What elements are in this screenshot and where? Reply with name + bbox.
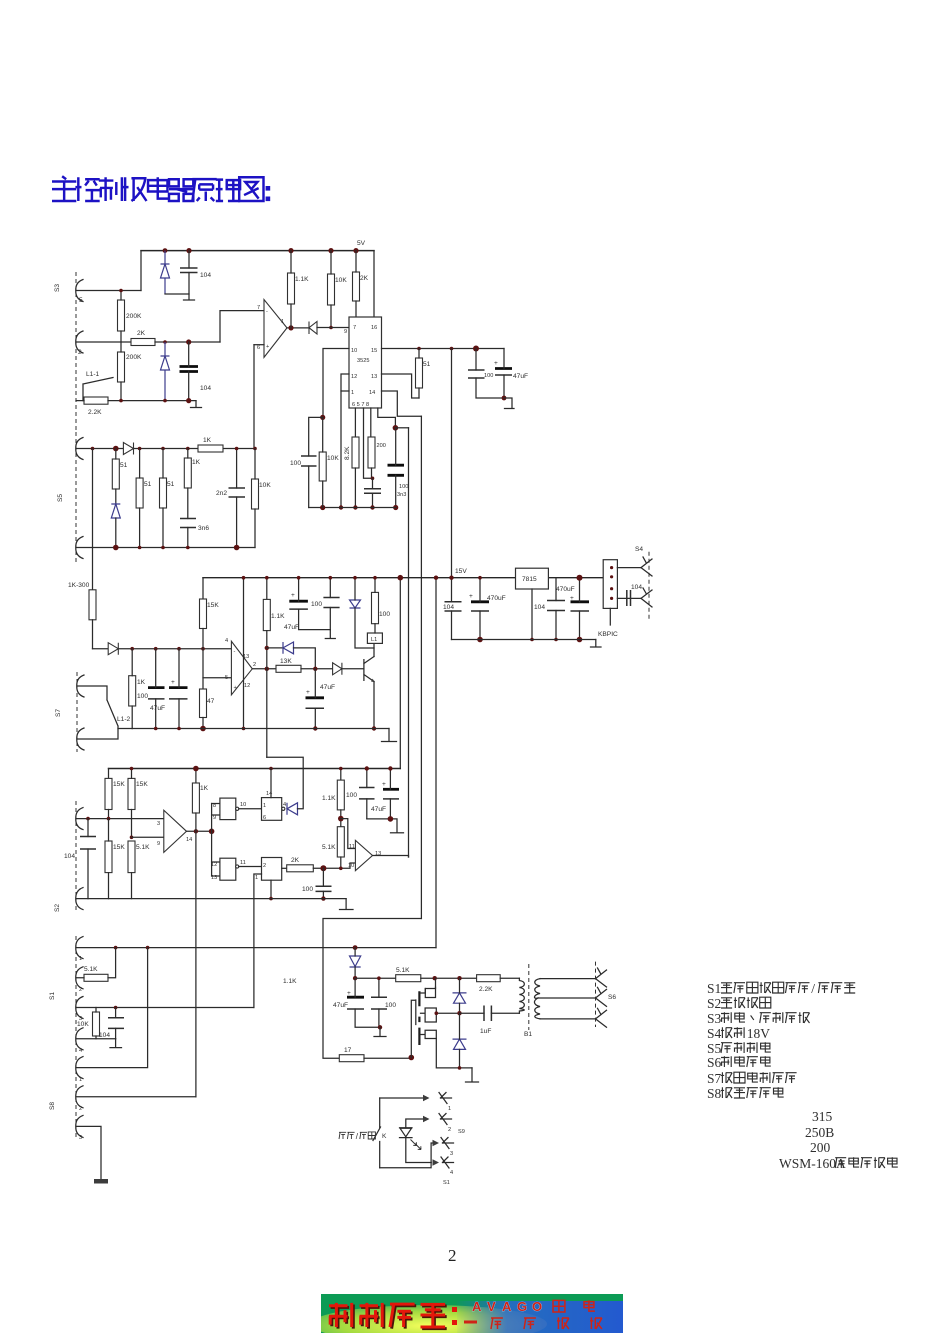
wire diode to base [342, 668, 364, 670]
resistor 51 a [112, 459, 119, 489]
op-amp U1 [264, 300, 287, 358]
thyristor leads [354, 948, 356, 979]
diode flyback [350, 600, 361, 608]
svg-text:L1-1: L1-1 [86, 371, 100, 378]
wire IC pin13 [382, 374, 420, 398]
IC U2 SG3525 box [349, 317, 382, 408]
resistor 10K s1 leads [95, 1008, 97, 1039]
capacitor 104 lower leads [188, 342, 190, 401]
capacitor 3n6 [180, 519, 196, 528]
svg-text:-: - [234, 649, 236, 655]
resistor 2K pullup leads [355, 251, 357, 317]
node 1K l rail [193, 766, 199, 772]
svg-text:2n2: 2n2 [216, 490, 227, 497]
resistor 47 [200, 689, 207, 718]
svg-text:5: 5 [225, 675, 228, 681]
S8 pin1 wire riser [76, 948, 148, 1068]
svg-text:13K: 13K [280, 658, 292, 665]
svg-text:100: 100 [302, 886, 313, 893]
transistor Q1 [364, 657, 374, 682]
resistor 1K series [198, 445, 223, 452]
wire 13K to diode [301, 668, 333, 670]
capacitor 47uF mid b leads [178, 649, 180, 729]
node 470uF a gnd [477, 637, 483, 643]
svg-text:9: 9 [344, 329, 347, 335]
svg-text:12: 12 [244, 683, 250, 689]
svg-text:3: 3 [79, 1135, 82, 1141]
regulator 7815 box [516, 568, 549, 589]
svg-text:104: 104 [534, 604, 545, 611]
flipflop FF1 box [262, 798, 282, 821]
wire pin6 to S5 line [253, 345, 255, 449]
ground snubber [466, 1068, 479, 1082]
capacitor 470uF b [571, 600, 590, 603]
banner background [321, 1294, 623, 1333]
svg-text:1K: 1K [200, 785, 209, 792]
ground below 104 [184, 294, 195, 300]
capacitor 3n6 lead [187, 528, 189, 548]
svg-text:10K: 10K [327, 455, 339, 462]
svg-text:S3: S3 [54, 284, 61, 292]
svg-text:1: 1 [281, 319, 284, 325]
node S5 bottom [138, 546, 142, 550]
bottom wire of S3 section [76, 400, 196, 402]
flipflop FF2 output wire [282, 867, 287, 869]
resistor 10K pin10 leads [322, 417, 324, 507]
node U4 output [194, 829, 198, 833]
svg-text:L1-2: L1-2 [117, 716, 131, 723]
svg-text:S8: S8 [49, 1102, 56, 1110]
gate G1 bubble [236, 807, 239, 810]
capacitor 100 timing leads [395, 428, 397, 508]
connector S7 dashed line [76, 672, 78, 752]
resistor 1K-300 lead [92, 620, 94, 649]
svg-text:100: 100 [379, 611, 390, 618]
resistor 200 lead [371, 468, 373, 478]
svg-text:100: 100 [385, 1002, 396, 1009]
svg-text:47uF: 47uF [371, 806, 386, 813]
capacitor 104 top leads [165, 251, 189, 294]
svg-text:2.2K: 2.2K [88, 409, 102, 416]
node diode line [329, 326, 333, 330]
svg-text:3n3: 3n3 [397, 492, 406, 498]
ground psu rail [591, 640, 602, 648]
connector S5 dashed line [75, 432, 77, 562]
resistor 5.1K s1 [84, 974, 108, 981]
svg-text:100: 100 [290, 460, 301, 467]
svg-text:104: 104 [443, 604, 454, 611]
bridge pin dot 1 [610, 566, 613, 569]
node S2 cap [86, 817, 90, 821]
svg-text:10: 10 [351, 348, 357, 354]
resistor 15K mid lower lead [202, 629, 204, 690]
node 728 rail [242, 727, 246, 731]
node 100 d top [377, 976, 381, 980]
wire IC pin15 rail [382, 348, 505, 350]
mosfet Q2 gate plate [415, 1000, 417, 1025]
node 104 b gnd [554, 638, 558, 642]
wire caps b gnd link [367, 819, 397, 832]
capacitor 104 psu b [547, 601, 565, 611]
svg-text:1.1K: 1.1K [322, 795, 336, 802]
resistor 51 b leads [139, 449, 141, 548]
capacitor 1uF [484, 1006, 491, 1022]
node drain [433, 976, 437, 980]
svg-text:15K: 15K [207, 602, 219, 609]
capacitor 100 pin10 leads [309, 417, 323, 507]
svg-text:104: 104 [64, 853, 75, 860]
svg-text:470uF: 470uF [556, 586, 575, 593]
svg-text:4: 4 [225, 638, 228, 644]
resistor 51 c [160, 478, 167, 508]
node 47uF out rail [297, 576, 301, 580]
svg-text:1.1K: 1.1K [271, 613, 285, 620]
node rail 728 c2 [177, 727, 181, 731]
node ground rail left [320, 505, 325, 510]
S3 pin 5 [76, 280, 83, 302]
svg-text:100: 100 [484, 373, 493, 379]
gate G2 bubble [236, 865, 239, 868]
node bottom wire [163, 399, 167, 403]
bridge pin dot 2 [610, 575, 613, 578]
svg-text:S7: S7 [707, 1071, 722, 1086]
diode flyback leads [355, 578, 374, 648]
node 8.2K ground [353, 505, 357, 509]
node diode top [457, 976, 461, 980]
resistor 15K l1 [105, 778, 112, 809]
LED bottom wire [406, 1138, 431, 1163]
connector S8 dashed line [75, 1056, 77, 1138]
svg-text:S7: S7 [55, 709, 62, 717]
capacitor 47uF base lower [306, 707, 325, 709]
resistor 200K upper [118, 300, 125, 331]
svg-text:S1: S1 [49, 992, 56, 1000]
zener feedback loop wire [267, 647, 283, 649]
zener D2 [161, 251, 170, 294]
capacitor 470uF a leads [479, 578, 481, 640]
wire diode to IC pin9 [317, 327, 349, 329]
wire 5.1K d out [421, 977, 477, 979]
svg-text:100: 100 [399, 484, 408, 490]
wire 2K to right [155, 341, 220, 343]
bridge bottom stub [609, 608, 611, 625]
svg-text:+: + [494, 360, 498, 367]
diode FF1 out [287, 803, 298, 815]
svg-text:6 5 7 8: 6 5 7 8 [352, 402, 369, 408]
node drive line [353, 976, 357, 980]
resistor 5.1K l lead [131, 873, 133, 899]
svg-text:S6: S6 [608, 994, 616, 1001]
diode D1 [309, 322, 317, 335]
S3 pin 2 [76, 331, 83, 353]
capacitor 47uF mid b [169, 686, 188, 689]
svg-text:4: 4 [79, 1048, 82, 1054]
wire bridge to S4 pin1 [617, 567, 641, 569]
wire FF1 diode riser [267, 757, 303, 809]
svg-text:K: K [382, 1133, 387, 1140]
bus A vertical [408, 428, 410, 857]
node 2K out [320, 865, 326, 871]
zener D3 [161, 342, 170, 401]
capacitor 104 psu a [445, 602, 462, 611]
wire 5V to IC top [373, 251, 375, 317]
transformer B1 core [528, 964, 530, 1030]
node S5 top big [113, 446, 119, 452]
node 15K l2 rail [130, 767, 134, 771]
svg-text:8: 8 [213, 803, 216, 809]
psu ground rail [452, 639, 596, 641]
svg-text:200K: 200K [126, 354, 142, 361]
wire IC pin6 [354, 408, 356, 437]
wire pin6 input [254, 344, 264, 346]
svg-text:11: 11 [240, 860, 246, 866]
svg-text:15: 15 [371, 348, 377, 354]
relay coil L1 box [367, 633, 382, 643]
transformer B1 primary [519, 978, 524, 1013]
diode mid inline [108, 643, 118, 655]
mosfet Q2 source stub [421, 1030, 437, 1038]
resistor 15K l2 leads [131, 769, 133, 838]
svg-text:1.1K: 1.1K [295, 276, 309, 283]
svg-text:5.1K: 5.1K [322, 844, 336, 851]
capacitor 47uF mid a [148, 686, 165, 689]
resistor 5.1K b lead [340, 857, 342, 868]
capacitor 100 b leads [366, 769, 368, 819]
bridge KBPIC box [603, 560, 617, 609]
S2 pin 2 [76, 888, 83, 910]
node mid line [177, 647, 181, 651]
capacitor 47uF d [347, 996, 364, 999]
capacitor 100 d [371, 997, 387, 1009]
svg-text:15K: 15K [136, 781, 148, 788]
svg-text:104: 104 [99, 1032, 110, 1039]
resistor 47 lead [202, 718, 204, 729]
ground S1 [110, 1039, 122, 1048]
S4 pin 2 [641, 588, 652, 607]
svg-text:5.1K: 5.1K [84, 966, 98, 973]
resistor 5.1K b [337, 827, 344, 857]
resistor 51 leads [418, 349, 420, 399]
resistor 15K l3 leads [108, 819, 110, 899]
wire pin2 to 2K [76, 341, 131, 343]
svg-text:5V: 5V [357, 240, 366, 247]
rail 728 [132, 728, 389, 730]
resistor 1.1K b lead [340, 810, 342, 827]
svg-text:104: 104 [200, 272, 211, 279]
resistor 1.1K leads [290, 251, 292, 328]
connector S4 dashed line [648, 552, 650, 619]
svg-text:10K: 10K [259, 482, 271, 489]
svg-text:47: 47 [207, 698, 215, 705]
node on 5V rail [288, 248, 293, 253]
svg-text:-: - [266, 309, 268, 315]
S2 input wire [76, 818, 164, 820]
svg-text:S1: S1 [443, 1180, 450, 1186]
svg-text:200: 200 [377, 443, 386, 449]
svg-text:47uF: 47uF [284, 624, 299, 631]
connector pin2 cross [439, 1114, 452, 1125]
resistor 2K l [287, 865, 314, 872]
S1 pin 3 [76, 997, 83, 1019]
svg-text:+: + [291, 592, 295, 599]
wire opamp U4 plus input [132, 836, 164, 838]
S5 pin 1 [76, 438, 83, 460]
resistor 10K fb leads [254, 449, 256, 548]
diode base drive [333, 663, 342, 675]
resistor 100 coil [372, 592, 379, 623]
ground 100 out [325, 630, 335, 639]
resistor 51 b [136, 478, 143, 508]
node S5 top [91, 447, 95, 451]
capacitor 47uF out lower [289, 608, 308, 610]
bridge pin dot 3 [610, 587, 613, 590]
node 470uF a rail [478, 576, 482, 580]
svg-text:2K: 2K [291, 857, 300, 864]
mosfet Q2 drain stub [421, 978, 436, 993]
resistor 10K pin10 [319, 452, 326, 481]
node 5.1K b bottom [339, 867, 343, 871]
svg-text:200: 200 [810, 1140, 831, 1155]
node on 5V rail [328, 248, 333, 253]
capacitor 47uF [495, 367, 512, 370]
resistor 51 a leads [115, 449, 117, 505]
svg-text:3525: 3525 [357, 358, 369, 364]
svg-text:+: + [382, 781, 386, 788]
relay contact L1-2 [77, 686, 118, 739]
wire diode to opamp2 [118, 648, 231, 650]
wire 15V feed long [76, 947, 436, 949]
wire to U5 pin11 [341, 819, 356, 849]
node bus C rail [449, 576, 453, 580]
gate G1 output wire [239, 808, 262, 810]
svg-text:+: + [306, 689, 310, 696]
wire U1 output [287, 327, 309, 329]
svg-text:2.2K: 2.2K [479, 986, 493, 993]
svg-text:470uF: 470uF [487, 595, 506, 602]
node 13K diode [313, 667, 317, 671]
capacitor 100 l leads [322, 868, 324, 898]
svg-text:1: 1 [79, 1077, 82, 1083]
node pin3 cap [114, 1006, 118, 1010]
node snubber gnd [458, 1066, 462, 1070]
S1 pin4 wire [76, 1038, 116, 1040]
capacitor 100 timing [388, 465, 405, 475]
S6 pin 3 [596, 1008, 607, 1027]
svg-text:1K: 1K [203, 437, 212, 444]
resistor 10K leads [330, 251, 332, 328]
connector S6 dashed line [595, 962, 597, 1027]
svg-text:A: A [472, 1299, 482, 1314]
node bus E rail [398, 575, 404, 581]
resistor 200 [368, 437, 375, 468]
page number 2 [448, 1246, 457, 1266]
svg-text:10: 10 [240, 802, 246, 808]
node snubber mid [457, 1011, 461, 1015]
svg-text:G: G [517, 1299, 527, 1314]
node bus D rail [434, 576, 438, 580]
wire 17 to gate node [364, 1057, 411, 1059]
gate G2 output wire [239, 866, 262, 868]
regulator 7815 gnd pin [531, 589, 533, 640]
node on 5V rail [353, 248, 358, 253]
secondary top tap [540, 978, 596, 980]
svg-text:1: 1 [448, 1106, 451, 1112]
ground caps b [391, 832, 404, 834]
flipflop FF1 vcc stub [270, 769, 272, 798]
node pin8 [393, 425, 399, 431]
ground at S3 bottom [191, 401, 202, 408]
resistor 1.1K fb [263, 599, 270, 630]
node ground rail [339, 505, 343, 509]
resistor 17 [339, 1055, 364, 1062]
resistor 15K mid [200, 599, 207, 629]
svg-text:1K-300: 1K-300 [68, 582, 90, 589]
svg-text:S9: S9 [458, 1129, 465, 1135]
switch bottom wire [380, 1163, 431, 1168]
svg-text:3: 3 [157, 821, 160, 827]
S6 pin 1 [596, 968, 607, 987]
svg-text:S2: S2 [707, 996, 721, 1011]
svg-text:14: 14 [186, 837, 192, 843]
svg-text:+: + [171, 679, 175, 686]
wire arrow pin1 [380, 1097, 423, 1099]
gate G2 box [220, 858, 236, 880]
capacitor 2n2 leads [236, 449, 238, 548]
capacitor 47uF b2 [383, 788, 399, 791]
S8 pin 3 [76, 1115, 83, 1137]
bridge pin dot 4 [610, 597, 613, 600]
wire pin8 to bus A [395, 427, 408, 429]
resistor 1.1K [288, 273, 295, 304]
svg-text:5.1K: 5.1K [136, 844, 150, 851]
resistor 1K b [184, 458, 191, 488]
svg-text:A: A [502, 1299, 512, 1314]
svg-text:KBPIC: KBPIC [598, 631, 618, 638]
wire pin12 net to ground rail [340, 391, 342, 508]
node 3n3 ground [370, 505, 374, 509]
mosfet Q2 channel segments [418, 991, 420, 1045]
svg-text:1K: 1K [137, 679, 146, 686]
capacitor 100 pin10 [301, 456, 317, 466]
resistor 10K fb [252, 479, 259, 509]
arrow head pin2 [423, 1116, 430, 1122]
node S5 right [253, 447, 257, 451]
node cap100 l gnd [321, 896, 325, 900]
svg-text:2: 2 [253, 662, 256, 668]
node 470uF b gnd [577, 637, 583, 643]
svg-text:47uF: 47uF [513, 373, 528, 380]
node cap 100 b rail [365, 766, 369, 770]
resistor 13K [276, 665, 301, 672]
resistor 1K l [192, 783, 199, 813]
connector S3 dashed line [75, 272, 77, 430]
capacitor 47uF d leads [355, 978, 380, 1027]
connector S2 dashed line [75, 801, 77, 912]
node on 5V rail [186, 248, 191, 253]
resistor 1K l lead long [195, 813, 197, 1097]
capacitor 104 S2 leads [87, 819, 89, 899]
wire rail drop to pin5 line [140, 251, 142, 291]
zener snubber top [453, 993, 467, 1003]
thyristor drive [350, 956, 361, 967]
arrow head pin4 [433, 1159, 440, 1165]
node 7815 gnd [530, 638, 534, 642]
S8 pin2 wire [76, 1096, 196, 1098]
bus B corner to drive section [323, 919, 421, 1059]
node mid line [130, 647, 134, 651]
node S5 bottom big [234, 545, 240, 551]
node rail 728 [200, 726, 206, 732]
